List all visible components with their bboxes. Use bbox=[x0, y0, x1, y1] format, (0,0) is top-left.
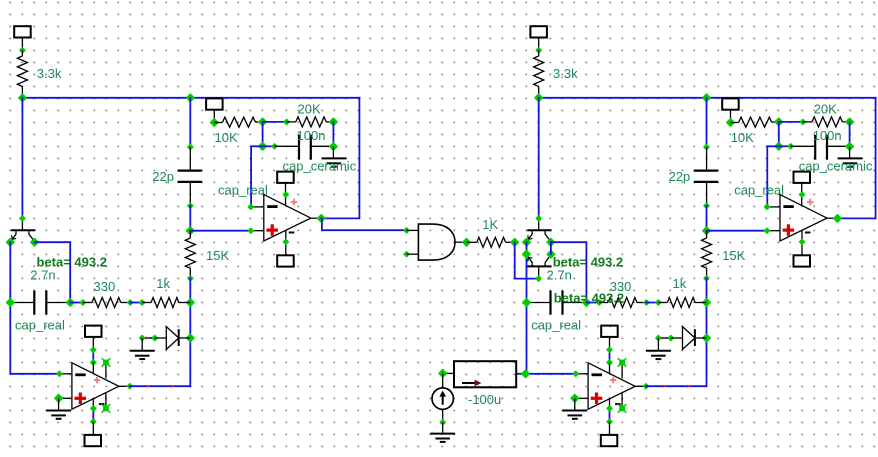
svg-text:20K: 20K bbox=[814, 101, 837, 116]
svg-text:20K: 20K bbox=[298, 101, 321, 116]
pin dot 100n left bbox=[271, 143, 278, 150]
svg-text:-100u: -100u bbox=[468, 392, 501, 407]
wire feedback loop bbox=[321, 98, 359, 219]
junction rail row bbox=[702, 298, 712, 308]
op-amp U2a output pin bbox=[827, 217, 838, 219]
resistor R11 3.3k bbox=[21, 50, 23, 56]
node dot U2b V+ a bbox=[606, 346, 613, 353]
pin dot gate input A bbox=[403, 227, 410, 234]
pin dot opamp noninv bbox=[763, 227, 770, 234]
pin dot U2b inv bbox=[572, 370, 579, 377]
op-amp U2b V+ pin bbox=[609, 362, 611, 373]
pin dot 22p top bbox=[703, 143, 710, 150]
wire 10K to 20K bbox=[779, 121, 803, 123]
junction at rail mid bbox=[185, 93, 195, 103]
resistor R13 20K bbox=[287, 121, 296, 123]
capacitor C12 100n bbox=[275, 145, 300, 147]
wire rail mid bbox=[706, 206, 708, 231]
wire rail lower bbox=[189, 278, 191, 386]
transistor Q21 bbox=[538, 218, 540, 230]
pin dot 330 left bbox=[79, 299, 86, 306]
node dot under P11 bbox=[19, 47, 26, 54]
op-amp U2b noninv pin bbox=[575, 397, 588, 399]
node dot U2b V+ b bbox=[606, 359, 613, 366]
op-amp U2a negative supply mark bbox=[805, 232, 811, 234]
svg-text:3.3k: 3.3k bbox=[37, 66, 62, 81]
capacitor C13 cap_real bbox=[10, 302, 34, 304]
current marker bbox=[662, 337, 666, 340]
junction U1b noninv bbox=[54, 393, 64, 403]
wire 20K down to 100n bbox=[849, 122, 851, 147]
node dot Q4 left leg bbox=[522, 249, 532, 259]
wire diode gnd link bbox=[142, 337, 155, 339]
current source I1 -100u bbox=[442, 373, 444, 388]
wire diode gnd link bbox=[658, 337, 671, 339]
node dot under P21 bbox=[535, 47, 542, 54]
power rail symbol below U1b bbox=[92, 422, 94, 435]
pin dot 1k left bbox=[139, 299, 146, 306]
node dot gate output bbox=[462, 237, 472, 247]
op-amp U1b aux pin bottom bbox=[105, 392, 107, 408]
op-amp U1b V- pin bbox=[92, 398, 94, 409]
svg-text:15K: 15K bbox=[722, 248, 745, 263]
svg-text:1k: 1k bbox=[156, 276, 170, 291]
ground at 100n bbox=[332, 147, 334, 159]
svg-text:cap_real: cap_real bbox=[218, 182, 268, 197]
wire U2b V+ stub bbox=[609, 350, 611, 363]
pin dot opamp inv bbox=[247, 203, 254, 210]
node dot U2a V+ bbox=[798, 191, 805, 198]
wire Q11 right leg down bbox=[35, 242, 71, 302]
pin dot gate input B bbox=[403, 251, 410, 258]
pin dot diode anode bbox=[151, 334, 158, 341]
op-amp U1b aux pin top bbox=[105, 362, 107, 378]
junction cap left bbox=[522, 298, 532, 308]
wire box to opamp input node bbox=[516, 373, 526, 375]
node dot Q21 left leg bbox=[522, 237, 532, 247]
resistor R13 1K bbox=[467, 241, 477, 243]
junction 10K-20K bbox=[774, 117, 784, 127]
op-amp U1b inverting input mark bbox=[75, 373, 85, 376]
node dot U1a V- bbox=[282, 238, 289, 245]
power rail symbol P21 bbox=[530, 26, 547, 37]
op-amp U1b V+ pin bbox=[92, 362, 94, 373]
no-connect X top U1b bbox=[103, 360, 109, 366]
wire row mid bbox=[646, 302, 658, 304]
op-amp U2b aux pin bottom bbox=[621, 392, 623, 408]
svg-text:22p: 22p bbox=[669, 169, 691, 184]
node dot Q11 collector bbox=[19, 215, 26, 222]
junction U2b noninv bbox=[570, 393, 580, 403]
resistor R23 20K bbox=[803, 121, 812, 123]
op-amp U2b negative supply mark bbox=[615, 403, 621, 405]
svg-text:10K: 10K bbox=[731, 130, 754, 145]
pin dot 100n left bbox=[787, 143, 794, 150]
pin dot diode gnd bbox=[139, 334, 146, 341]
AND gate U5 bbox=[407, 229, 419, 231]
no-connect X bottom U2b bbox=[619, 406, 625, 412]
node dot Q21 collector bbox=[535, 215, 542, 222]
power rail symbol below U1a bbox=[277, 255, 294, 266]
op-amp noninv pin bbox=[251, 230, 264, 232]
op-amp U1a non-inverting input mark bbox=[266, 229, 278, 232]
op-amp U2b inverting input mark bbox=[592, 373, 602, 376]
node dot U1a output bbox=[316, 214, 326, 224]
transistor Q4 bbox=[538, 266, 540, 278]
ground at U2b noninv bbox=[574, 398, 576, 410]
ground at diode bbox=[657, 338, 659, 351]
op-amp U1b inv pin bbox=[60, 373, 72, 375]
op-amp U1a body triangle bbox=[264, 195, 311, 241]
op-amp U2a inverting input mark bbox=[783, 205, 793, 208]
resistor R15 330 bbox=[83, 302, 92, 304]
node dot Q21 right leg bbox=[546, 237, 556, 247]
junction at rail left bbox=[18, 93, 28, 103]
op-amp U2b positive supply mark bbox=[610, 379, 616, 381]
transistor Q11 bbox=[21, 218, 23, 230]
capacitor C21 22p bbox=[706, 147, 708, 171]
pin dot diode anode bbox=[667, 334, 674, 341]
svg-text:cap_real: cap_real bbox=[734, 182, 784, 197]
node dot Q11 left leg bbox=[5, 237, 15, 247]
current marker bbox=[146, 385, 150, 388]
wire to cap 100n bbox=[263, 145, 275, 147]
node dot U1a V+ bbox=[282, 191, 289, 198]
wire junction column bbox=[778, 122, 780, 146]
node dot 1K right bbox=[510, 237, 520, 247]
wire to opamp noninv input bbox=[190, 230, 251, 232]
wire top rail bbox=[539, 97, 876, 99]
svg-text:beta= 493.2: beta= 493.2 bbox=[554, 291, 624, 306]
wire U1b V+ stub bbox=[92, 350, 94, 363]
wire row left bbox=[70, 302, 83, 304]
pin dot 22p bottom bbox=[187, 202, 194, 209]
op-amp inv pin bbox=[767, 206, 780, 208]
node dot under P22 bbox=[726, 118, 736, 128]
op-amp U1a positive supply mark bbox=[291, 201, 297, 203]
power rail symbol above U1b bbox=[85, 326, 102, 337]
op-amp inv pin bbox=[251, 206, 264, 208]
svg-text:10K: 10K bbox=[215, 130, 238, 145]
svg-text:22p: 22p bbox=[152, 169, 174, 184]
wire 1K to Q4 collector bbox=[515, 242, 539, 278]
op-amp U1b body triangle bbox=[72, 363, 119, 409]
svg-text:cap_real: cap_real bbox=[15, 318, 65, 333]
node dot U1b V- b bbox=[90, 418, 97, 425]
current marker bbox=[146, 337, 150, 340]
op-amp U2b output pin bbox=[635, 385, 646, 387]
svg-text:2.7n: 2.7n bbox=[547, 268, 572, 283]
op-amp U2a positive supply mark bbox=[807, 201, 813, 203]
capacitor C11 22p bbox=[189, 147, 191, 171]
svg-text:100n: 100n bbox=[813, 128, 842, 143]
wire to cap 100n bbox=[779, 145, 791, 147]
pin dot 15K bottom bbox=[187, 275, 194, 282]
pin dot 1k left bbox=[655, 299, 662, 306]
capacitor C23 cap_real bbox=[527, 302, 551, 304]
wire Q2-Q4 right legs bbox=[550, 242, 552, 254]
wire to opamp noninv input bbox=[707, 230, 768, 232]
wire rail upper bbox=[706, 98, 708, 147]
pin dot opamp noninv bbox=[247, 227, 254, 234]
op-amp U1b noninv pin bbox=[59, 397, 72, 399]
resistor R26 1k bbox=[658, 302, 667, 304]
power rail symbol above U2b bbox=[601, 326, 618, 337]
current marker bbox=[663, 385, 667, 388]
wire U1a output to gate bbox=[321, 218, 406, 230]
wire Q21 left leg down bbox=[527, 242, 576, 374]
junction at rail left bbox=[534, 93, 544, 103]
power rail symbol P22 bbox=[722, 98, 739, 109]
junction 100n left bbox=[774, 141, 784, 151]
wire Q21 right leg down bbox=[551, 242, 587, 302]
node dot U1b output bbox=[126, 383, 133, 390]
junction cap right bbox=[65, 298, 75, 308]
node dot U1b V- a bbox=[90, 405, 97, 412]
current sense box W1 bbox=[454, 361, 516, 387]
node dot U2a V- bbox=[798, 238, 805, 245]
junction 20K right bbox=[845, 117, 855, 127]
pin dot 20K left bbox=[283, 118, 290, 125]
svg-text:3.3k: 3.3k bbox=[553, 66, 578, 81]
op-amp U1b non-inverting input mark bbox=[75, 397, 87, 400]
pin dot 330 right bbox=[127, 299, 134, 306]
wire to opamp inv input bbox=[251, 146, 263, 207]
node dot U2b output bbox=[642, 383, 649, 390]
wire U2b V- stub bbox=[609, 408, 611, 421]
junction rail diode bbox=[702, 333, 712, 343]
pin dot 22p top bbox=[187, 143, 194, 150]
power rail symbol below U2a bbox=[794, 255, 811, 266]
current marker bbox=[171, 385, 175, 388]
op-amp U2b V- pin bbox=[609, 398, 611, 409]
op-amp U2b aux pin top bbox=[621, 362, 623, 378]
pin dot U1b inv bbox=[56, 370, 63, 377]
ground at diode bbox=[141, 338, 143, 351]
junction 100n right bbox=[329, 142, 339, 152]
node dot U2b V- b bbox=[606, 418, 613, 425]
op-amp U2b body triangle bbox=[588, 363, 635, 409]
op-amp U2a body triangle bbox=[780, 195, 827, 241]
wire rail mid bbox=[189, 206, 191, 231]
no-connect X bottom U1b bbox=[103, 406, 109, 412]
op-amp U1b output pin bbox=[119, 385, 130, 387]
resistor R16 1k bbox=[142, 302, 151, 304]
ground at I1 bbox=[442, 422, 444, 433]
wire 10K to 20K bbox=[263, 121, 287, 123]
node dot Q4 right leg bbox=[546, 249, 556, 259]
node dot Q4 collector bbox=[535, 275, 542, 282]
wire rail upper bbox=[189, 98, 191, 147]
wire U2b output bbox=[646, 385, 707, 387]
resistor R25 330 bbox=[599, 302, 608, 304]
svg-text:15K: 15K bbox=[206, 248, 229, 263]
resistor R21 3.3k bbox=[538, 50, 540, 56]
node dot under P12 bbox=[209, 118, 219, 128]
resistor R22 10K bbox=[731, 122, 739, 124]
current marker bbox=[687, 385, 691, 388]
wire to opamp inv input bbox=[767, 146, 779, 207]
op-amp U1b negative supply mark bbox=[99, 403, 105, 405]
node dot U1b V+ a bbox=[90, 346, 97, 353]
ground at U1b noninv bbox=[58, 398, 60, 410]
diode D11 bbox=[155, 337, 167, 339]
op-amp U1a inverting input mark bbox=[267, 205, 277, 208]
op-amp noninv pin bbox=[767, 230, 780, 232]
svg-text:cap_real: cap_real bbox=[531, 318, 581, 333]
svg-text:1k: 1k bbox=[673, 276, 687, 291]
pin dot diode gnd bbox=[655, 334, 662, 341]
pin dot I1 bottom bbox=[439, 419, 446, 426]
junction 20K right bbox=[329, 117, 339, 127]
wire junction column bbox=[262, 122, 264, 146]
node dot U2b V- a bbox=[606, 405, 613, 412]
pin dot 330 right bbox=[643, 299, 650, 306]
svg-text:330: 330 bbox=[94, 279, 116, 294]
junction cap left bbox=[5, 298, 15, 308]
junction 100n left bbox=[258, 141, 268, 151]
junction box left bbox=[438, 369, 448, 379]
op-amp U2a V- pin bbox=[801, 230, 803, 255]
junction 100n right bbox=[845, 142, 855, 152]
svg-text:2.7n: 2.7n bbox=[30, 268, 55, 283]
wire feedback loop bbox=[838, 98, 876, 219]
node dot U1b V+ b bbox=[90, 359, 97, 366]
no-connect X top U2b bbox=[619, 360, 625, 366]
resistor R14 15K bbox=[189, 231, 191, 238]
op-amp U2a non-inverting input mark bbox=[783, 229, 795, 232]
power rail symbol above U2a bbox=[794, 172, 811, 183]
op-amp U2b non-inverting input mark bbox=[591, 397, 603, 400]
junction rail noninv bbox=[702, 226, 712, 236]
wire U1b output bbox=[130, 385, 191, 387]
capacitor C22 100n bbox=[791, 145, 816, 147]
junction rail row bbox=[185, 298, 195, 308]
op-amp U1a output pin bbox=[311, 217, 322, 219]
op-amp U1a V- pin bbox=[285, 230, 287, 255]
op-amp U1b positive supply mark bbox=[94, 379, 100, 381]
junction 10K-20K bbox=[258, 117, 268, 127]
pin dot 20K left bbox=[799, 118, 806, 125]
junction rail noninv bbox=[185, 226, 195, 236]
ground at 100n bbox=[849, 147, 851, 159]
power rail symbol below U2b bbox=[609, 422, 611, 435]
pin dot 22p bottom bbox=[703, 202, 710, 209]
wire U1b V- stub bbox=[92, 408, 94, 421]
power rail symbol above U1a bbox=[277, 172, 294, 183]
svg-text:1K: 1K bbox=[482, 217, 498, 232]
wire rail lower bbox=[706, 278, 708, 386]
svg-text:100n: 100n bbox=[297, 128, 326, 143]
pin dot 15K bottom bbox=[703, 275, 710, 282]
resistor R12 10K bbox=[214, 122, 222, 124]
wire Q11 left leg down bbox=[10, 242, 59, 374]
node dot Q11 right leg bbox=[30, 237, 40, 247]
diode D21 bbox=[671, 337, 683, 339]
node dot U2a output bbox=[833, 214, 843, 224]
op-amp U1a negative supply mark bbox=[289, 232, 295, 234]
op-amp U2b inv pin bbox=[576, 373, 588, 375]
junction at rail mid bbox=[702, 93, 712, 103]
pin dot 330 left bbox=[596, 299, 603, 306]
junction box right bbox=[521, 369, 531, 379]
pin dot opamp inv bbox=[763, 203, 770, 210]
resistor R24 15K bbox=[706, 231, 708, 238]
wire 20K down to 100n bbox=[332, 122, 334, 147]
junction rail diode bbox=[185, 333, 195, 343]
box W1 left pin bbox=[443, 372, 454, 374]
junction cap right bbox=[582, 298, 592, 308]
power rail symbol P12 bbox=[206, 98, 223, 109]
power rail symbol P11 bbox=[14, 26, 31, 37]
wire collector drop bbox=[21, 98, 23, 219]
wire collector drop bbox=[538, 98, 540, 219]
wire top rail bbox=[22, 97, 359, 99]
wire row mid bbox=[130, 302, 142, 304]
wire row left bbox=[586, 302, 599, 304]
